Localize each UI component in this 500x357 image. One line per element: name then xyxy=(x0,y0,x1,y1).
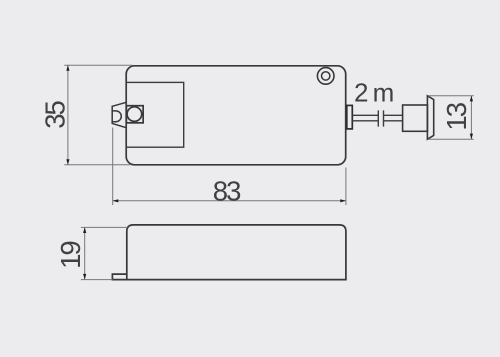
controller body (top view) xyxy=(126,66,346,165)
sensor flange xyxy=(427,96,433,139)
dim 13 line xyxy=(470,96,472,139)
arrow 83 right xyxy=(340,199,346,202)
left cable-clamp tab xyxy=(112,102,126,127)
svg-text:2 m: 2 m xyxy=(354,77,393,107)
dim 19 top extension xyxy=(81,226,128,228)
output connector xyxy=(347,105,353,128)
clamp semicircle notch xyxy=(112,111,121,122)
side view foot notch xyxy=(112,274,126,280)
mounting hole outer xyxy=(317,68,334,85)
cable segment 1 xyxy=(352,115,378,121)
trimmer circle xyxy=(127,107,142,122)
dim 35 top extension xyxy=(64,64,132,66)
dim 35 bottom extension xyxy=(64,164,130,166)
svg-text:35: 35 xyxy=(40,101,71,129)
side view body xyxy=(127,225,346,280)
arrow 19 down xyxy=(83,274,86,280)
dim 83 right extension xyxy=(345,168,347,206)
dim 19 bottom extension xyxy=(81,279,113,281)
svg-text:19: 19 xyxy=(55,242,86,269)
dim 13 bottom extension xyxy=(429,138,474,140)
arrow 83 left xyxy=(113,199,119,202)
inner compartment rectangle xyxy=(126,82,184,147)
svg-text:83: 83 xyxy=(213,176,241,207)
cable segment 2 xyxy=(384,115,403,121)
dim 35 line xyxy=(67,65,69,165)
arrow 35 down xyxy=(66,159,69,165)
svg-text:13: 13 xyxy=(441,102,472,130)
dim 83 line xyxy=(113,200,346,202)
arrow 19 up xyxy=(83,227,86,233)
dim 13 top extension xyxy=(429,95,474,97)
dim 19 line xyxy=(84,227,86,279)
arrow 13 down xyxy=(470,134,473,140)
trimmer square xyxy=(126,106,143,123)
sensor barrel xyxy=(403,105,428,131)
arrow 35 up xyxy=(66,65,69,71)
dim 83 left extension xyxy=(112,128,114,206)
arrow 13 up xyxy=(470,96,473,102)
mounting hole inner xyxy=(322,72,330,80)
cable break marks xyxy=(378,110,383,126)
